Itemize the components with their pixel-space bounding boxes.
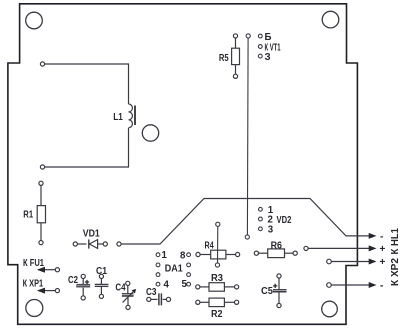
node 1 (VD2) (259, 207, 263, 211)
mounting hole bottom-right (322, 301, 338, 317)
resistor R1 (37, 181, 45, 245)
svg-text:3: 3 (268, 224, 274, 235)
svg-text:К ХР2: К ХР2 (389, 258, 400, 286)
svg-text:C3: C3 (146, 287, 157, 298)
pin 6 (187, 273, 191, 277)
mounting hole top-left (26, 12, 43, 29)
wire: short vertical net through R4 (215, 222, 220, 267)
svg-text:1: 1 (162, 250, 168, 261)
svg-text:R1: R1 (23, 209, 33, 220)
wire: trapezoid net to minus arrow (117, 199, 369, 247)
mounting hole middle (142, 125, 158, 141)
node 3 (VD2) (259, 227, 263, 231)
inductor L1 (40, 62, 135, 169)
svg-text:R5: R5 (219, 53, 229, 64)
capacitor C1 (95, 274, 109, 298)
svg-text:К FU1: К FU1 (23, 258, 44, 269)
svg-text:L1: L1 (113, 112, 123, 123)
wire: plus arrow row 3 (327, 259, 369, 264)
svg-text:К HL1: К HL1 (389, 228, 400, 255)
pin 7 (187, 263, 191, 267)
resistor R3 (196, 283, 239, 292)
svg-text:5: 5 (182, 279, 188, 290)
svg-text:R6: R6 (271, 241, 283, 252)
svg-text:R2: R2 (211, 309, 223, 320)
node К FU1 with arrow (44, 268, 60, 272)
svg-text:+: + (380, 257, 386, 268)
resistor R2 (196, 298, 239, 307)
pin 4 (156, 282, 160, 286)
svg-text:R4: R4 (205, 241, 215, 252)
wire: plus arrow row 2 (304, 246, 369, 250)
pin 2 (156, 263, 160, 267)
svg-text:-: - (380, 280, 383, 291)
capacitor C2 (electrolytic) (76, 274, 90, 300)
pin 1 (156, 253, 160, 257)
node К VT1 (258, 45, 262, 49)
wire: minus arrow row 4 (327, 283, 369, 288)
capacitor C5 (electrolytic) (273, 274, 287, 308)
svg-text:Б: Б (265, 32, 272, 43)
resistor R4 (196, 250, 240, 259)
pin 5 (187, 282, 191, 286)
capacitor C4 (trimmer) (122, 281, 135, 309)
arrow minus (К HL1 -) (369, 233, 377, 239)
resistor R5 (232, 34, 240, 79)
svg-text:R3: R3 (211, 273, 223, 284)
node Б (258, 34, 262, 38)
node К XP1 with arrow (44, 289, 60, 293)
diode VD1 (73, 239, 107, 248)
resistor R6 (254, 249, 297, 258)
svg-text:C1: C1 (96, 266, 107, 277)
svg-text:C4: C4 (115, 283, 126, 294)
svg-text:VD2: VD2 (277, 215, 292, 226)
capacitor C3 (147, 293, 171, 305)
wire: long vertical net from top pad down (245, 34, 250, 239)
node 2 (VD2) (259, 217, 263, 221)
svg-text:DA1: DA1 (165, 264, 183, 275)
op-amp DA1 pads (156, 253, 190, 286)
mounting hole top-right (322, 11, 339, 28)
svg-text:4: 4 (164, 280, 170, 291)
pin 3 (156, 273, 160, 277)
node З (258, 54, 262, 58)
svg-text:8: 8 (180, 251, 186, 262)
svg-text:C5: C5 (261, 286, 273, 297)
svg-text:C2: C2 (68, 275, 78, 286)
pin 8 (187, 253, 191, 257)
svg-text:-: - (380, 231, 383, 242)
svg-text:+: + (380, 244, 386, 255)
svg-text:З: З (265, 52, 271, 63)
svg-text:VD1: VD1 (83, 229, 100, 240)
mounting hole bottom-left (26, 300, 43, 317)
svg-text:К XP1: К XP1 (23, 279, 44, 290)
